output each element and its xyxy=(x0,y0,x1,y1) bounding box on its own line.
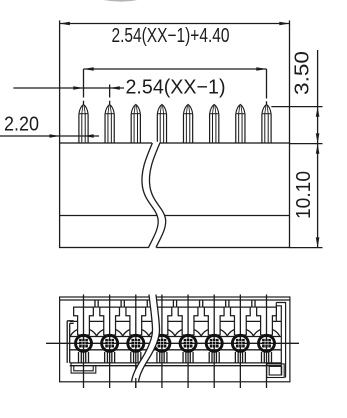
rib bar top line xyxy=(74,306,277,308)
extension line pin8 tip xyxy=(271,106,322,108)
pin 1 xyxy=(79,104,88,143)
svg-text:10.10: 10.10 xyxy=(293,171,315,219)
separator 5 xyxy=(200,300,203,307)
contact 3 grid line tail xyxy=(135,378,137,388)
contact 8 xyxy=(253,295,279,389)
body parting line xyxy=(60,215,290,217)
keying notch bottom left xyxy=(71,363,96,373)
separator 2 xyxy=(121,300,124,307)
extension line body top right xyxy=(290,143,323,145)
dimension 2.20 xyxy=(0,135,99,137)
pin 2 xyxy=(105,104,114,143)
step box bottom right xyxy=(267,364,285,378)
break band (bottom view) xyxy=(132,296,160,382)
break line right (bottom view) xyxy=(139,295,160,382)
dimension line 2.54(XX-1) span xyxy=(84,68,267,70)
ledge line across ribs xyxy=(70,320,282,322)
pin 8 xyxy=(262,104,271,143)
contact 1 xyxy=(70,295,96,389)
svg-text:3.50: 3.50 xyxy=(292,51,314,95)
dimension line 3.50 xyxy=(317,50,319,144)
contact 5 xyxy=(175,295,201,389)
contact 7 xyxy=(227,295,253,389)
svg-text:2.20: 2.20 xyxy=(4,114,39,136)
bottom inner double line xyxy=(70,363,282,366)
pitch dimension line xyxy=(13,87,124,89)
extension line left body edge xyxy=(59,20,61,143)
break line right xyxy=(149,143,165,248)
pin 3 xyxy=(131,104,140,143)
outer housing rect xyxy=(60,297,290,382)
pin 7 xyxy=(236,104,245,143)
break line left xyxy=(142,143,158,248)
channel lines through contacts xyxy=(70,337,282,350)
contact 4 xyxy=(149,295,175,389)
separator 1 xyxy=(95,300,98,307)
connector body xyxy=(60,143,290,248)
pin8 center line xyxy=(266,69,268,104)
contact 2 xyxy=(97,295,123,389)
separator 7 xyxy=(252,300,255,307)
pin 4 xyxy=(157,104,166,143)
extension line right body edge xyxy=(289,20,291,143)
separator 3 xyxy=(147,300,150,307)
top inner line xyxy=(60,299,290,301)
extension line body bottom right xyxy=(290,247,323,249)
svg-text:2.54(XX−1)+4.40: 2.54(XX−1)+4.40 xyxy=(112,25,230,47)
right pocket wall xyxy=(276,303,285,378)
pin 5 xyxy=(183,104,192,143)
contact 6 xyxy=(201,295,227,389)
break line left (bottom view) xyxy=(132,295,153,382)
left inner wall xyxy=(67,321,74,363)
svg-text:2.54(XX−1): 2.54(XX−1) xyxy=(126,76,226,98)
pin 6 xyxy=(210,104,219,143)
separator 6 xyxy=(226,300,229,307)
dimension line 10.10 xyxy=(317,144,319,248)
pin2 center line xyxy=(109,85,111,105)
center line through contacts xyxy=(46,342,299,344)
pin1 center line xyxy=(83,69,85,104)
separator 4 xyxy=(173,300,176,307)
break band (side view) xyxy=(142,142,166,249)
contact 3 xyxy=(123,295,149,389)
dimension line 2.54(XX-1)+4.40 xyxy=(60,23,290,25)
cropped remnant arc at top edge xyxy=(99,0,142,1)
